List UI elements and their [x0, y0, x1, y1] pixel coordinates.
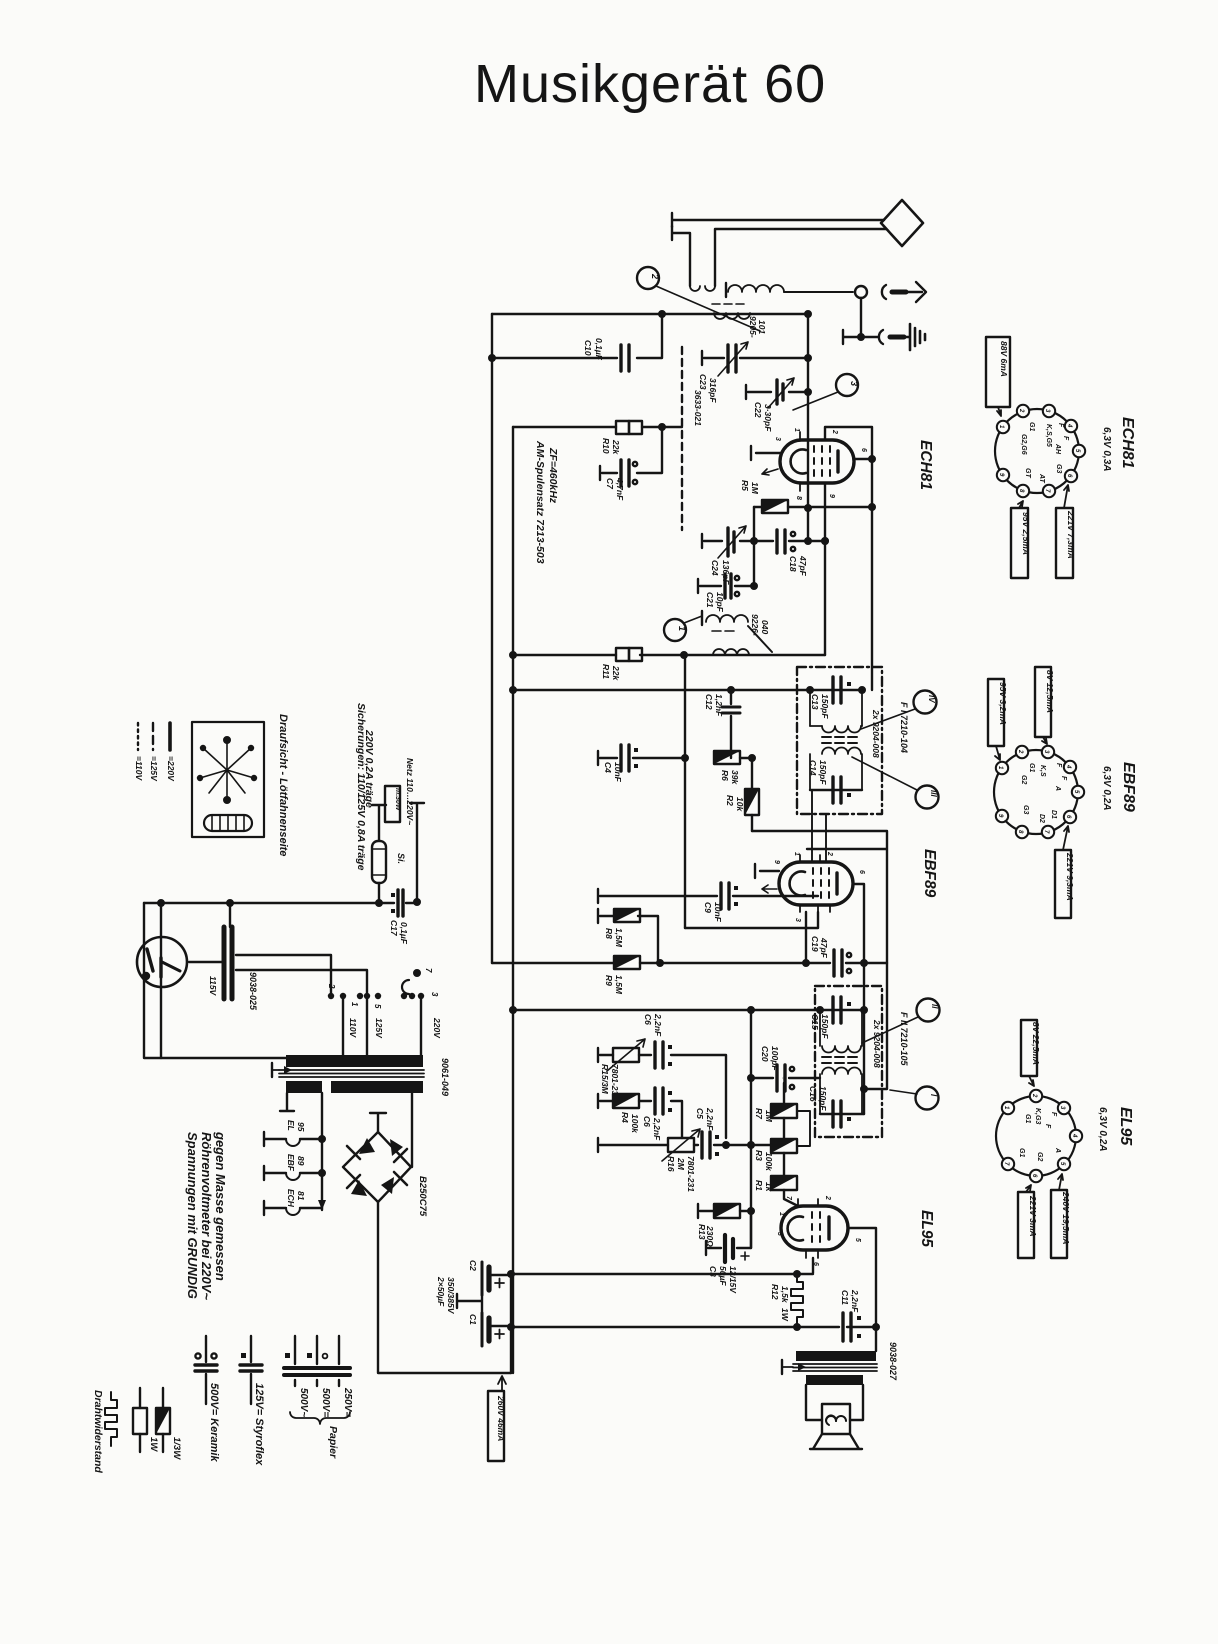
anode supply jog wires: [752, 831, 887, 1089]
svg-text:95V 2,5mA: 95V 2,5mA: [1021, 512, 1031, 555]
primary feed wire: [510, 687, 865, 693]
svg-text:Draufsicht - Lötfahnenseite: Draufsicht - Lötfahnenseite: [277, 714, 289, 856]
svg-text:95V 3,2mA: 95V 3,2mA: [998, 682, 1008, 725]
svg-text:F: F: [1057, 423, 1064, 428]
label B250C75: [417, 1176, 428, 1217]
svg-text:R1: R1: [754, 1180, 764, 1191]
electrolytic C3 50uF 12/15V: [706, 1211, 751, 1262]
B+ wire from C1: [508, 1324, 876, 1330]
label R5 1M: [740, 480, 760, 495]
svg-text:81: 81: [296, 1191, 306, 1201]
svg-text:5: 5: [373, 1004, 382, 1009]
svg-text:3633-021: 3633-021: [693, 390, 703, 426]
label 115V: [208, 976, 218, 997]
svg-text:C23: C23: [698, 374, 708, 390]
svg-text:100pF: 100pF: [770, 1046, 780, 1071]
capacitor C12 1,2nF: [722, 687, 740, 758]
svg-text:C21: C21: [705, 592, 715, 608]
grid couple wires to EBF89: [812, 790, 826, 862]
label 6,3V 0,3A: [1101, 427, 1112, 471]
svg-text:C1: C1: [468, 1314, 478, 1325]
capacitor C7 4,7nF: [600, 427, 662, 486]
R5 left drop wire: [751, 507, 757, 586]
label 6,3V 0,2A EL: [1097, 1107, 1108, 1151]
label EBF89: [1120, 762, 1137, 812]
circled IV pointer: [861, 691, 937, 730]
label FII 7210-105: [899, 1012, 909, 1067]
capacitor C14 150pF: [810, 777, 862, 803]
svg-text:0,1µF: 0,1µF: [399, 922, 409, 945]
svg-text:K,S: K,S: [1039, 765, 1046, 777]
svg-text:1,2nF: 1,2nF: [714, 694, 724, 717]
label FI 7210-104: [899, 702, 909, 753]
circled I pointer: [890, 1087, 939, 1110]
B+ rail vertical: [510, 1274, 512, 1373]
svg-text:9: 9: [828, 494, 835, 498]
svg-text:EL95: EL95: [1117, 1107, 1134, 1146]
svg-text:G1: G1: [1018, 1148, 1025, 1157]
svg-text:R6: R6: [720, 770, 730, 781]
label 125V: [374, 1018, 384, 1039]
label 250V=: [342, 1387, 353, 1417]
earth ground symbol: [910, 324, 925, 350]
boxed label m.30W: [385, 786, 401, 822]
grid riser wire (ECH81 pin2): [805, 314, 811, 544]
ECH81 voltage box 88V 6mA: [986, 337, 1010, 416]
svg-text:ECH81: ECH81: [1119, 417, 1136, 469]
svg-text:8: 8: [795, 496, 802, 500]
svg-text:10nF: 10nF: [613, 762, 623, 783]
oscillator grid wire: [510, 652, 825, 658]
antenna plug with arrow: [882, 282, 926, 302]
svg-text:C22: C22: [753, 402, 763, 418]
fuse Si.: [372, 841, 386, 906]
capacitor C18 47pF: [777, 530, 828, 553]
tube EBF89 envelope: [779, 862, 853, 905]
line style legend 220V: [166, 723, 176, 782]
svg-text:2: 2: [826, 851, 833, 856]
svg-text:101: 101: [757, 320, 767, 334]
svg-text:1: 1: [350, 1002, 359, 1007]
IF II feed wire: [510, 1007, 862, 1013]
capacitor C5 2,2nF: [702, 1132, 751, 1158]
ECH81 socket ring: [995, 409, 1079, 493]
heater EBF89: [264, 1166, 322, 1180]
label Spannungen block: [185, 1131, 228, 1300]
svg-text:6: 6: [858, 870, 865, 874]
label C15 150pF: [810, 1014, 830, 1039]
svg-text:A: A: [1054, 785, 1061, 791]
IF I primary coil: [810, 690, 862, 733]
screen bus drop to C20: [748, 1010, 754, 1248]
dashed coil-unit line 3633-021: [681, 347, 683, 530]
svg-text:125V= Styroflex: 125V= Styroflex: [253, 1383, 265, 1466]
svg-text:ZF=460kHz: ZF=460kHz: [547, 447, 559, 504]
svg-text:22k: 22k: [611, 439, 621, 455]
svg-text:C18: C18: [788, 556, 798, 572]
svg-text:R15/3M: R15/3M: [600, 1064, 610, 1095]
label ECH81 (schematic): [917, 440, 934, 490]
svg-text:2: 2: [1017, 749, 1023, 754]
output transformer secondary: [806, 1375, 863, 1420]
svg-text:C6: C6: [643, 1014, 653, 1025]
svg-text:2: 2: [824, 1195, 831, 1200]
EBF89 voltage box 221V 9,3mA: [1055, 826, 1075, 918]
ECH81 voltage box 95V 2,5mA: [1011, 501, 1031, 578]
svg-text:2: 2: [1018, 408, 1024, 413]
legend ceramic capacitor: [195, 1336, 217, 1404]
label 1W: [148, 1437, 159, 1452]
svg-text:1M: 1M: [764, 1110, 774, 1123]
circled II pointer: [862, 999, 940, 1044]
svg-text:100k: 100k: [630, 1114, 640, 1134]
lamp to selector wire: [189, 961, 222, 963]
ECH81 anode bar: [836, 451, 839, 472]
svg-text:47pF: 47pF: [819, 937, 829, 959]
heater winding chassis stub: [280, 1093, 294, 1111]
capacitor C20 100pF: [751, 1065, 820, 1091]
svg-text:8V 12,5mA: 8V 12,5mA: [1045, 670, 1055, 713]
IF I secondary coil: [810, 748, 862, 790]
ECH81 socket pins: [997, 405, 1085, 497]
svg-text:5: 5: [854, 1238, 861, 1242]
tube EL95 envelope: [781, 1206, 848, 1250]
label 9205-101: [748, 316, 767, 338]
label R13 230R: [697, 1224, 715, 1247]
svg-text:2,2nF: 2,2nF: [653, 1013, 663, 1037]
EL95 socket ring: [996, 1096, 1076, 1176]
IF transformer I box (dash-dot): [797, 667, 882, 814]
ferrite antenna coil: [726, 283, 853, 297]
power transformer secondary bars: [286, 1081, 423, 1093]
svg-text:gegen Masse gemessen: gegen Masse gemessen: [213, 1131, 228, 1281]
label 3633-021: [693, 390, 703, 426]
svg-text:1M: 1M: [750, 482, 760, 495]
svg-text:2: 2: [1031, 1093, 1037, 1098]
svg-text:Drahtwiderstand: Drahtwiderstand: [92, 1390, 104, 1473]
svg-text:150pF: 150pF: [818, 760, 828, 785]
svg-text:Netz 110…220V~: Netz 110…220V~: [405, 758, 415, 825]
capacitor C13 150pF: [833, 677, 851, 703]
capacitor C10: [489, 314, 662, 371]
tube socket top view box: [192, 722, 264, 837]
label Drahtwiderstand: [92, 1390, 104, 1473]
capacitor C17 0,1uF: [379, 890, 420, 916]
EL95 voltage box 221V 3mA: [1018, 1185, 1038, 1258]
label C23 316pF: [698, 374, 718, 403]
wire C5 to R3: [751, 1144, 771, 1146]
label C6 2,2nF: [643, 1013, 663, 1037]
svg-text:1: 1: [677, 626, 687, 631]
label R1 1k: [754, 1180, 774, 1193]
primary bus wire: [144, 900, 379, 906]
label 6,3V 0,2A EBF: [1101, 766, 1112, 810]
label C11 2,2nF: [840, 1289, 860, 1313]
ECH81 pin stubs + numbers: [774, 427, 867, 500]
svg-text:4: 4: [1065, 764, 1071, 769]
mains terminal right: [410, 803, 424, 902]
label R15/3M 7801-233: [600, 1064, 620, 1100]
ECH81 triode grid stub + ground: [751, 446, 780, 475]
label C3 50uF 12/15V: [708, 1266, 738, 1294]
label R3 100k: [754, 1150, 774, 1172]
capacitor C21 10pF: [698, 574, 757, 598]
EL95 socket pins: [1002, 1090, 1082, 1182]
svg-text:2×50µF: 2×50µF: [436, 1276, 446, 1307]
svg-text:115V: 115V: [208, 976, 218, 997]
label C20 100pF: [760, 1046, 780, 1071]
svg-text:6: 6: [860, 448, 867, 452]
tube ECH81 envelope: [780, 440, 854, 483]
svg-text:2: 2: [650, 273, 660, 279]
brace for Papier: [290, 1412, 350, 1424]
IF II core (dashed): [822, 1057, 857, 1063]
tuning coil 9205-101: [712, 304, 750, 319]
dial lamp: [137, 903, 187, 1058]
resistor R11 22k: [616, 648, 642, 661]
svg-text:=125V: =125V: [149, 756, 159, 782]
svg-text:0,1µF: 0,1µF: [594, 338, 604, 361]
label C14 150pF: [808, 760, 828, 785]
svg-text:9205-: 9205-: [748, 316, 758, 338]
heater ECH81: [264, 1201, 322, 1215]
EL95 anode bar: [827, 1217, 830, 1239]
svg-text:F II 7210-105: F II 7210-105: [899, 1012, 909, 1067]
svg-text:C2: C2: [468, 1260, 478, 1271]
svg-text:9: 9: [773, 860, 780, 864]
coupling coil on osc wire: [713, 649, 749, 655]
label Si.: [396, 853, 406, 864]
legend paper capacitor 250V=: [328, 1336, 350, 1386]
svg-text:=110V: =110V: [134, 756, 144, 782]
svg-text:C5: C5: [695, 1108, 705, 1119]
rectifier bridge B250C75: [343, 1113, 411, 1202]
resistor R3 100k: [771, 1139, 797, 1153]
ECH81 cathode riser: [822, 483, 828, 655]
tap drop wires: [343, 996, 421, 1055]
svg-text:3: 3: [774, 437, 781, 441]
EBF89 agc drop: [803, 912, 809, 966]
speaker: [810, 1404, 862, 1449]
svg-text:2M: 2M: [676, 1157, 686, 1171]
capacitor C6 2,2nF (upper): [655, 1042, 726, 1138]
svg-text:4,7nF: 4,7nF: [615, 477, 625, 501]
label 125V= Styroflex: [253, 1383, 265, 1466]
EL95 cathode drop: [812, 1258, 814, 1273]
EL95 anode wire: [848, 1228, 879, 1351]
selector tap wires: [236, 955, 367, 996]
label AM-Spulensatz: [534, 440, 559, 564]
svg-text:22k: 22k: [611, 665, 621, 681]
ECH81 cathode: [791, 450, 806, 474]
svg-text:7801-231: 7801-231: [686, 1156, 696, 1192]
output transformer 9038-027 primary: [796, 1351, 876, 1361]
label C4 10nF: [603, 762, 623, 783]
label R10 22k: [601, 438, 621, 455]
electrolytic C1: [482, 1313, 511, 1346]
resistor R5 1M: [754, 500, 875, 513]
label R12 1,5k 1W: [770, 1284, 790, 1322]
label 9061-049: [440, 1058, 450, 1096]
capacitor C23 316pF (padder): [702, 342, 811, 376]
svg-text:1: 1: [778, 1212, 785, 1216]
label 2x50uF 350/385V: [436, 1276, 456, 1315]
line style legend 110V: [134, 723, 144, 782]
svg-text:G2: G2: [1036, 1152, 1043, 1161]
svg-text:R2: R2: [725, 795, 735, 806]
svg-text:G2: G2: [1020, 775, 1027, 784]
svg-text:10k: 10k: [735, 797, 745, 812]
svg-text:8V 22,5mA: 8V 22,5mA: [1031, 1022, 1041, 1065]
svg-text:2x 9204-008: 2x 9204-008: [871, 709, 881, 758]
label EBF 89: [286, 1154, 306, 1172]
label C9 10nF: [703, 902, 723, 923]
label R8 1,5M: [604, 928, 624, 948]
label 2x 9204-008 IF II: [872, 1019, 882, 1068]
label C2: [468, 1260, 478, 1271]
label R2 10k: [725, 795, 745, 812]
svg-text:R11: R11: [601, 664, 611, 679]
resistor R12 1,5k 1W (wirewound zigzag): [791, 1274, 803, 1327]
resistor R10 22k on AVC wire: [513, 421, 682, 434]
svg-text:240V 19,5mA: 240V 19,5mA: [1061, 1191, 1071, 1244]
svg-text:350/385V: 350/385V: [446, 1277, 456, 1315]
label R7 1M: [754, 1108, 774, 1123]
EBF89 socket pins: [996, 746, 1084, 838]
B+ wire from C2: [508, 1271, 813, 1277]
svg-text:6,3V 0,2A: 6,3V 0,2A: [1101, 766, 1112, 810]
mains plug arc: [402, 970, 420, 994]
svg-text:1,5M: 1,5M: [614, 928, 624, 948]
svg-text:221V 7,3mA: 221V 7,3mA: [1066, 510, 1076, 559]
legend resistor 1W: [133, 1388, 147, 1452]
svg-text:1W: 1W: [780, 1308, 790, 1322]
resistor R6 39k: [714, 751, 752, 764]
svg-text:9226-: 9226-: [750, 614, 760, 636]
svg-text:ECH: ECH: [286, 1189, 296, 1208]
heater chain rail: [318, 1093, 326, 1210]
svg-text:316pF: 316pF: [708, 378, 718, 403]
svg-text:F: F: [1060, 776, 1067, 781]
svg-text:6,3V 0,3A: 6,3V 0,3A: [1101, 427, 1112, 471]
legend wirewound resistor: [105, 1392, 117, 1446]
left rail to transformer: [144, 903, 287, 1058]
EL95 pin stubs: [776, 1195, 861, 1266]
resistor R1 1k: [771, 1176, 797, 1190]
trimmer C24 136pF: [702, 526, 773, 558]
label C19 47pF: [810, 936, 829, 959]
label 110V: [348, 1018, 358, 1039]
label Draufsicht: [277, 714, 289, 856]
svg-text:150pF: 150pF: [820, 694, 830, 719]
svg-text:A: A: [1054, 1147, 1061, 1153]
svg-text:C6: C6: [642, 1116, 652, 1127]
svg-text:3: 3: [794, 918, 801, 922]
label Papier: [327, 1426, 339, 1459]
bridge AC wire: [411, 1093, 413, 1167]
svg-text:R12: R12: [770, 1284, 780, 1300]
svg-text:C10: C10: [583, 340, 593, 356]
capacitor C16 150pF: [820, 1101, 864, 1127]
label C24 136pF: [710, 560, 731, 585]
label R16 2M 7801-231: [666, 1156, 696, 1192]
trimmer C22 3-30pF: [746, 378, 811, 408]
EBF89 diode arrows + ground stub: [755, 864, 779, 893]
label Netz 110..220V~: [405, 758, 415, 825]
svg-text:F I 7210-104: F I 7210-104: [899, 702, 909, 753]
svg-text:220V 0,2A träge: 220V 0,2A träge: [363, 729, 375, 808]
svg-text:110V: 110V: [348, 1018, 358, 1039]
label 9038-025: [248, 972, 258, 1011]
grid resistor chain vertical: [784, 1083, 798, 1206]
electrolytic C2 2x50uF: [482, 1262, 511, 1295]
svg-text:150pF: 150pF: [820, 1014, 830, 1039]
label R6 39k: [720, 770, 740, 785]
resistor R7 1M: [771, 1104, 797, 1118]
svg-text:R4: R4: [620, 1112, 630, 1123]
label 1/3W: [171, 1437, 182, 1460]
svg-text:IV: IV: [927, 695, 936, 703]
label EL 95: [286, 1119, 306, 1132]
svg-text:2: 2: [327, 983, 336, 989]
EBF89 socket ring: [994, 750, 1078, 834]
svg-text:3·30pF: 3·30pF: [763, 404, 773, 432]
svg-text:220V: 220V: [432, 1017, 442, 1039]
svg-text:C11: C11: [840, 1290, 850, 1305]
label C10 0,1uF: [583, 338, 604, 361]
svg-text:R8: R8: [604, 928, 614, 939]
svg-text:EL: EL: [286, 1120, 296, 1131]
label 220V: [432, 1017, 442, 1039]
terminal row dots: [328, 993, 424, 999]
circled 1 pointer: [664, 616, 702, 641]
label C12 1,2nF: [704, 694, 724, 717]
svg-text:EL95: EL95: [918, 1210, 935, 1247]
label ECH 81: [286, 1189, 306, 1208]
svg-text:R5: R5: [740, 480, 750, 491]
svg-text:3: 3: [430, 992, 439, 997]
heater EL95: [264, 1132, 322, 1146]
svg-text:260V 46mA: 260V 46mA: [496, 1395, 506, 1441]
svg-text:Röhrenvoltmeter bei 220V~: Röhrenvoltmeter bei 220V~: [199, 1132, 214, 1300]
screen loop wire: [825, 427, 875, 690]
svg-text:EBF: EBF: [286, 1154, 296, 1172]
svg-text:Si.: Si.: [396, 853, 406, 864]
antenna symbol (diamond): [881, 200, 923, 246]
svg-text:EBF89: EBF89: [921, 849, 938, 898]
svg-text:R9: R9: [604, 975, 614, 986]
svg-text:9061-049: 9061-049: [440, 1058, 450, 1096]
svg-text:AT: AT: [1038, 473, 1045, 484]
EBF89 anode wire: [853, 884, 864, 1114]
label EL95: [1117, 1107, 1134, 1146]
legend paper capacitor 500V=: [306, 1336, 328, 1386]
EBF89 pin stubs: [773, 851, 865, 922]
EBF89 grid3 wire: [685, 912, 818, 928]
svg-text:39k: 39k: [730, 770, 740, 785]
label 9038-027: [888, 1342, 898, 1381]
label Sicherungen: [355, 703, 375, 871]
EBF89 electrode labels: [1020, 763, 1067, 823]
volume pot R16 2M 7801-231: [598, 1129, 700, 1161]
capacitor C6b 2,2nF: [655, 1088, 682, 1138]
AM box left rail: [512, 427, 514, 1373]
svg-text:1,5M: 1,5M: [614, 975, 624, 995]
svg-text:II: II: [930, 1004, 939, 1009]
svg-text:12/15V: 12/15V: [728, 1266, 738, 1294]
svg-text:1/3W: 1/3W: [171, 1437, 182, 1460]
label C6b 2,2nF: [642, 1116, 662, 1141]
